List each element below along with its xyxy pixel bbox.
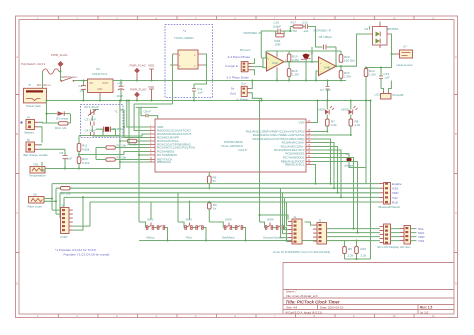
wire R11 top to VDD branch: [79, 135, 120, 137]
wires J3 pins: [305, 222, 381, 241]
svg-text:Rate count: Rate count: [28, 205, 43, 209]
power symbol VDD: [148, 64, 155, 81]
wire pin9: [138, 107, 140, 222]
svg-text:R2 10k: R2 10k: [117, 143, 127, 147]
power jack J7: [24, 83, 52, 108]
svg-text:D: D: [16, 282, 18, 286]
svg-text:B: B: [455, 132, 457, 136]
svg-text:TCXO~10MHz: TCXO~10MHz: [174, 36, 194, 40]
svg-text:RB5/AN11: RB5/AN11: [157, 160, 171, 164]
svg-text:J1: J1: [293, 215, 297, 219]
connector J8 input select: [240, 48, 252, 72]
svg-text:2.2M: 2.2M: [292, 58, 299, 62]
op-amp U4B: [319, 57, 337, 76]
capacitor C12: [302, 21, 316, 47]
capacitor C8 bypass: [141, 107, 153, 117]
hierarchical labels i2c: [418, 227, 425, 243]
svg-text:J5: J5: [27, 138, 31, 142]
svg-text:Battery: Battery: [25, 131, 35, 135]
resistor R5: [343, 241, 354, 260]
svg-text:2.2k: 2.2k: [348, 254, 354, 258]
connector J4 battery: [25, 116, 39, 135]
wire J5 to C5: [47, 148, 66, 150]
wire tcxo out down to mcu: [134, 104, 172, 127]
wire VDD rail top: [113, 80, 346, 82]
capacitor C1: [79, 81, 87, 101]
svg-text:MCP6002--P: MCP6002--P: [244, 31, 261, 35]
wire heat signal vertical: [365, 101, 367, 184]
resistor R18: [275, 31, 291, 46]
wire sensor to node: [392, 53, 396, 55]
resistor R11: [77, 136, 90, 157]
svg-text:PolySwitch .2A F1: PolySwitch .2A F1: [21, 62, 46, 66]
wire clamp to sensor node: [391, 34, 392, 54]
svg-text:J3: J3: [318, 219, 322, 223]
junction opamp2 plus input: [311, 61, 313, 63]
wire vss vertical long: [119, 101, 121, 169]
svg-text:Plus: Plus: [186, 236, 192, 240]
wire J8 pins: [251, 58, 260, 75]
wire opamp1 power stubs: [276, 51, 278, 81]
wires J1 left pins: [281, 188, 289, 241]
svg-text:BAT54S: BAT54S: [388, 27, 399, 31]
svg-text:*1: *1: [115, 110, 118, 114]
svg-text:Heat sensor: Heat sensor: [397, 63, 413, 67]
wire osc1 from tcxo: [134, 127, 149, 131]
svg-text:SW4: SW4: [267, 218, 274, 222]
wires crystal section: [92, 110, 115, 137]
wire opamp out to diode clamp: [346, 34, 369, 66]
connector J5 charge enable: [24, 138, 49, 157]
wire regulator GND to rail: [99, 96, 101, 101]
svg-text:Populate Y1,C3,C4,C8 for cryst: Populate Y1,C3,C4,C8 for crystal.: [64, 253, 111, 257]
wire pin11: [120, 161, 149, 163]
wires tcxo section: [170, 54, 207, 104]
svg-text:PWR_FLAG: PWR_FLAG: [130, 88, 147, 92]
switch SW2 Plus: [184, 218, 204, 240]
svg-text:Rev: 1.5: Rev: 1.5: [420, 306, 432, 310]
svg-text:.1uF: .1uF: [197, 91, 203, 95]
svg-text:3 Logic in: 3 Logic in: [225, 64, 239, 68]
wire bundle net A: [52, 184, 378, 211]
resistor R4: [120, 139, 149, 146]
power symbol VSS: [148, 85, 154, 101]
wire R19 R20 top rail: [266, 51, 341, 58]
svg-text:1.2M: 1.2M: [292, 73, 299, 77]
resistor R14: [287, 51, 299, 62]
junction VDD rail flags: [136, 80, 138, 82]
junction ground C2: [120, 100, 122, 102]
resistor R9 below mcu: [208, 172, 217, 190]
svg-text:B: B: [16, 132, 18, 136]
svg-text:Bat charge enable: Bat charge enable: [24, 153, 49, 157]
wire feedback node: [289, 27, 291, 32]
sensor U7 heat: [396, 45, 413, 68]
connector J6 power in: [237, 82, 251, 102]
connector J3 RJ12 plug: [313, 219, 327, 245]
wire temperature to divider: [42, 162, 79, 171]
wire osc2 from crystal: [103, 134, 149, 136]
svg-text:C6 5-30 pF: C6 5-30 pF: [84, 105, 99, 109]
wire SW1: [139, 203, 168, 241]
wire SW2: [178, 193, 206, 241]
svg-text:R3 10k: R3 10k: [117, 155, 127, 159]
feedback capacitor C8b 100pF: [315, 35, 336, 50]
mcu left pin names: [157, 125, 195, 164]
capacitor C11: [192, 84, 203, 96]
svg-text:A: A: [16, 55, 18, 59]
svg-text:Sheet: /: Sheet: /: [286, 290, 297, 294]
svg-text:120pF: 120pF: [273, 24, 282, 28]
resistor R20: [339, 51, 355, 63]
svg-text:Size: A4: Size: A4: [286, 306, 297, 310]
junction VSS rail flags: [136, 100, 138, 102]
diode D3: [47, 111, 71, 120]
svg-text:PWR_FLAG: PWR_FLAG: [51, 53, 68, 57]
piezo LS1: [375, 91, 404, 99]
svg-text:2.2k: 2.2k: [361, 254, 367, 258]
svg-text:Rh 10k: Rh 10k: [61, 192, 71, 196]
svg-text:R10: R10: [361, 247, 367, 251]
resistor R12a: [77, 157, 90, 169]
connector J9 bluetooth: [379, 183, 401, 210]
svg-text:RB6/SCK/SCL: RB6/SCK/SCL: [285, 163, 305, 167]
svg-text:2.2k: 2.2k: [331, 123, 337, 127]
regulator U3 LD1117: [88, 67, 114, 96]
svg-text:J8 Conn: J8 Conn: [240, 48, 252, 52]
svg-text:D3 ready: D3 ready: [56, 117, 69, 121]
power flag PF3: [130, 88, 147, 101]
wire SW3: [209, 222, 245, 241]
svg-text:5v: 5v: [231, 87, 235, 91]
frame row ticks left: [16, 95, 20, 253]
wire jack down to battery node: [46, 101, 48, 124]
wire upper link tcxo-c8: [136, 106, 158, 108]
svg-text:4.65k: 4.65k: [82, 148, 90, 152]
crystal Y1: [104, 127, 124, 132]
wire battery pins: [39, 122, 59, 143]
svg-text:D: D: [455, 282, 457, 286]
capacitor C2 polarized: [117, 81, 125, 101]
svg-text:VSS: VSS: [298, 121, 304, 125]
junction ground C1: [83, 100, 85, 102]
wire clamp top vdd stub: [370, 22, 381, 30]
op-amp U4A: [267, 53, 288, 72]
wires lcd aux links: [391, 229, 417, 241]
junction C1 top: [83, 80, 85, 82]
led LED1: [318, 101, 334, 120]
wire sensor node down: [366, 54, 392, 68]
svg-text:1-2 Photo Diode: 1-2 Photo Diode: [227, 75, 250, 79]
svg-text:R17: R17: [291, 21, 297, 25]
mcu right pin numbers: [308, 120, 311, 165]
resistor R8: [349, 119, 361, 135]
svg-text:C5: C5: [60, 151, 64, 155]
svg-text:ICSP: ICSP: [61, 235, 68, 239]
svg-text:Piezo28: Piezo28: [393, 93, 404, 97]
wire opamp2 inputs: [312, 62, 319, 81]
wire polyswitch to switch: [59, 72, 61, 82]
resistor R2: [96, 143, 149, 149]
svg-text:Conn M: RJ12/6P6C Conn F1-0x2: Conn M: RJ12/6P6C Conn F1-0x2 RJ12(3): [273, 250, 330, 254]
svg-text:VIN: VIN: [89, 82, 93, 85]
dashed graphic box TCXO section: [165, 25, 213, 98]
svg-text:U6: U6: [33, 193, 37, 197]
oscillator U5 TCXO: [173, 36, 204, 69]
svg-text:SW3: SW3: [225, 218, 232, 222]
svg-text:C4 20pF: C4 20pF: [85, 129, 97, 133]
wire opamp1 output: [284, 61, 312, 63]
resistor R10: [355, 241, 367, 260]
svg-text:Set/Menu: Set/Menu: [222, 236, 235, 240]
wire divider tap to chip: [79, 154, 124, 156]
svg-text:10uF: 10uF: [117, 94, 124, 98]
wire opamp2 output: [336, 47, 346, 66]
wire J6 pins: [251, 81, 262, 101]
resistor R16: [339, 66, 351, 80]
svg-text:U7: U7: [403, 45, 407, 49]
junction R11-R13: [78, 154, 80, 156]
svg-text:J2: J2: [61, 204, 65, 208]
svg-text:100 (1k): 100 (1k): [344, 59, 355, 63]
svg-text:10M: 10M: [275, 42, 281, 46]
wire button common rail: [139, 240, 371, 242]
capacitor C13: [379, 68, 390, 89]
svg-text:File: timer-v5.kicad_sch: File: timer-v5.kicad_sch: [286, 294, 318, 298]
svg-text:*1: *1: [183, 29, 186, 33]
wires ICSP pins: [73, 197, 83, 230]
svg-text:51: 51: [213, 179, 217, 183]
power flag PF2 near VDD: [130, 64, 147, 81]
hierarchical labels bluetooth: [392, 182, 402, 204]
wire pin6: [129, 101, 149, 145]
wire R2 R3 left join: [95, 148, 97, 160]
svg-text:VDD: VDD: [148, 64, 155, 68]
diode pair D1 BAT54: [365, 24, 399, 49]
capacitor C4: [85, 129, 97, 137]
svg-text:Id: 1/1: Id: 1/1: [420, 310, 429, 314]
wire vdd vertical feed: [127, 101, 149, 128]
power flag PF1: [51, 53, 68, 72]
svg-text:xx11-P: xx11-P: [238, 148, 247, 152]
wire piezo legs: [381, 81, 391, 92]
capacitor C3: [85, 118, 97, 126]
svg-text:R14 <2k: R14 <2k: [55, 126, 67, 130]
svg-text:DC 10mm: DC 10mm: [37, 83, 51, 87]
mcu left pin numbers: [150, 124, 153, 162]
wire piezo drive vertical: [370, 101, 372, 241]
svg-text:+C2: +C2: [117, 81, 123, 85]
svg-text:C3 18pF: C3 18pF: [85, 118, 97, 122]
svg-text:SW1: SW1: [147, 218, 154, 222]
wire divider tap to pin8: [124, 152, 149, 155]
svg-text:2.2k: 2.2k: [355, 123, 361, 127]
svg-text:VSS: VSS: [418, 239, 424, 243]
wire switch to regulator VIN: [75, 80, 88, 82]
fuse polyswitch F1: [21, 62, 59, 74]
svg-text:Minus: Minus: [147, 236, 156, 240]
svg-text:PWR_FLAG: PWR_FLAG: [130, 64, 147, 68]
svg-text:LED1: LED1: [318, 108, 326, 112]
svg-text:A: A: [455, 55, 457, 59]
svg-text:.1uF: .1uF: [303, 29, 309, 33]
wire R14 to D3: [70, 114, 72, 123]
wire bundle net E: [73, 202, 378, 226]
wire rate count pins: [44, 199, 56, 202]
svg-text:TH1: TH1: [33, 163, 39, 167]
svg-text:J4: J4: [27, 116, 31, 120]
svg-text:R5: R5: [348, 247, 352, 251]
svg-text:*1 Populate U4,C11 for TCXO.: *1 Populate U4,C11 for TCXO.: [55, 248, 97, 252]
svg-text:GND: GND: [97, 88, 103, 91]
svg-text:Enable: Enable: [392, 182, 402, 186]
mcu left pin stubs: [149, 127, 155, 162]
wire jack to polyswitch: [43, 72, 47, 92]
title block outline: [283, 263, 454, 315]
wire J5 pins: [39, 145, 47, 150]
wire J1 feed: [260, 101, 289, 223]
wire input to opamp: [261, 58, 267, 68]
junction ground U3: [99, 100, 101, 102]
svg-text:Date: 2023-02-15: Date: 2023-02-15: [320, 306, 344, 310]
connector J2 ICSP: [61, 204, 73, 240]
title block text fields: [286, 290, 433, 315]
wire lower-left link: [79, 168, 120, 170]
svg-text:3.32k: 3.32k: [82, 161, 90, 165]
wire bundle net C: [60, 193, 378, 218]
svg-text:U4A: U4A: [272, 61, 278, 65]
wire mclr: [124, 110, 149, 138]
svg-text:1k: 1k: [213, 206, 217, 210]
svg-text:U4B: U4B: [324, 66, 330, 70]
capacitor C10: [273, 21, 285, 34]
capacitor C7: [320, 81, 331, 101]
svg-text:KiCad E.D.A. kicad (6.0.11): KiCad E.D.A. kicad (6.0.11): [286, 310, 322, 314]
svg-text:1uF: 1uF: [67, 157, 72, 161]
capacitor C5: [60, 149, 73, 167]
svg-text:Bluetooth/Serial: Bluetooth/Serial: [379, 205, 401, 209]
wire feedback left leg: [261, 31, 275, 58]
svg-text:RC7/AN5/SDO: RC7/AN5/SDO: [157, 153, 178, 157]
resistor R12: [364, 68, 376, 101]
mcu right pin names: [246, 121, 305, 167]
connector J10 lcd: [380, 224, 391, 244]
resistor R15: [287, 62, 299, 81]
svg-text:U3: U3: [96, 67, 100, 71]
svg-text:I2C LCD Display I2C Aux: I2C LCD Display I2C Aux: [377, 245, 411, 249]
svg-text:RxD: RxD: [392, 200, 399, 204]
resistor R7: [326, 119, 338, 132]
svg-text:1.5M: 1.5M: [344, 75, 351, 79]
wire SW4: [260, 222, 287, 241]
photo transistor Q1: [301, 53, 314, 60]
resistor R3: [96, 155, 149, 161]
svg-text:VOUT: VOUT: [102, 82, 109, 85]
svg-text:C8~F: C8~F: [144, 110, 152, 114]
frame row ticks right: [454, 95, 458, 253]
svg-text:vibrate: vibrate: [344, 164, 353, 168]
svg-text:Title: PICTock Clock Timer: Title: PICTock Clock Timer: [286, 299, 340, 304]
counter U6 rate count: [28, 193, 45, 209]
thermistor U1 temperature: [29, 163, 46, 178]
svg-text:J7: J7: [28, 83, 32, 87]
svg-text:C: C: [16, 211, 18, 215]
motor M1 vibrate: [344, 152, 366, 168]
svg-text:TxD: TxD: [392, 196, 398, 200]
wire R5 R10 bottom: [345, 241, 371, 260]
svg-text:Temperature: Temperature: [29, 174, 46, 178]
frame column ticks bottom: [59, 314, 415, 318]
svg-text:LED2: LED2: [341, 108, 349, 112]
svg-text:MCP6002--P: MCP6002--P: [314, 29, 331, 33]
IC U2 PIC16F MCU body: [155, 119, 306, 172]
svg-text:D1: D1: [365, 27, 369, 31]
resistor R17: [290, 21, 305, 34]
svg-text:C12: C12: [302, 21, 308, 25]
svg-text:VSS: VSS: [148, 85, 154, 89]
svg-text:In Power: In Power: [237, 98, 249, 102]
switch SW3 SetMenu: [222, 218, 244, 240]
resistor Rh pullup: [61, 187, 72, 196]
wire bundle net D: [64, 197, 378, 222]
wire mcu right fanout 1: [312, 101, 358, 233]
wires bluetooth pins: [378, 184, 380, 202]
node mclr top: [120, 109, 124, 111]
svg-text:LD1117/3.3: LD1117/3.3: [92, 72, 107, 76]
switch SW4 Snooze: [263, 218, 285, 240]
dashed graphic box crystal section: [81, 105, 124, 138]
switch SW1 Minus: [146, 218, 166, 240]
resistor R6: [208, 202, 218, 222]
resistor R14 charge: [47, 122, 71, 130]
svg-text:2-3 Piezo Phase: 2-3 Piezo Phase: [228, 55, 251, 59]
mcu right pin stubs: [306, 123, 312, 165]
wire c8 right drop: [153, 116, 158, 119]
trimmer capacitor C6: [84, 105, 99, 116]
wire ground rail: [47, 100, 371, 102]
switch SW5: [61, 75, 77, 82]
svg-text:.1uF: .1uF: [384, 76, 390, 80]
connector J1 RJ12: [288, 215, 302, 244]
svg-text:1.2M: 1.2M: [369, 73, 376, 77]
svg-text:SW2: SW2: [186, 218, 193, 222]
connector J11 aux: [377, 226, 411, 250]
svg-text:Gnd: Gnd: [230, 92, 236, 96]
svg-text:Power jack: Power jack: [26, 104, 41, 108]
svg-text:VDD: VDD: [392, 191, 399, 195]
svg-text:C8 100pF: C8 100pF: [319, 35, 332, 39]
led LED2: [341, 101, 358, 120]
wire bundle net B: [56, 188, 378, 214]
svg-text:VSS: VSS: [392, 187, 398, 191]
junction polyswitch/flag: [60, 71, 62, 73]
junction C2 top: [120, 80, 122, 82]
svg-text:C: C: [455, 211, 457, 215]
frame column ticks top: [59, 16, 415, 20]
svg-text:LS1: LS1: [375, 93, 381, 97]
svg-text:Cn+: Cn+: [241, 82, 247, 86]
